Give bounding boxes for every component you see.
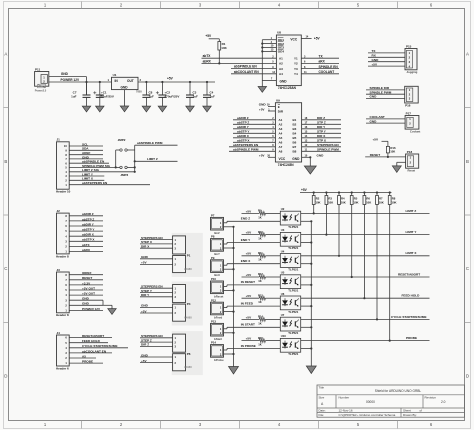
resistor R11 1K (259, 254, 265, 258)
wire JMP2 left leg (115, 150, 117, 167)
margin row ticks right (465, 107, 471, 109)
svg-text:+5V: +5V (259, 107, 266, 111)
svg-text:abSTP Y: abSTP Y (237, 130, 250, 134)
svg-text:END Z: END Z (241, 217, 250, 221)
svg-text:+5V: +5V (205, 34, 212, 38)
svg-text:TLP521: TLP521 (288, 225, 298, 229)
wire P9 pin1 to END X (224, 264, 228, 266)
ground (306, 366, 316, 374)
svg-text:+5V: +5V (167, 77, 174, 81)
svg-text:+3.3V: +3.3V (82, 281, 91, 285)
svg-text:GND: GND (141, 304, 149, 308)
svg-text:STEPPERS EN: STEPPERS EN (317, 143, 339, 147)
svg-text:P12: P12 (211, 298, 216, 302)
pin B8 U9 net SPINDLE PWM (302, 150, 341, 152)
svg-text:DIR X: DIR X (317, 134, 326, 138)
svg-text:DIR Z: DIR Z (141, 343, 149, 347)
svg-text:SPINDLE PWM SIG: SPINDLE PWM SIG (82, 164, 111, 168)
svg-text:U1: U1 (113, 73, 117, 77)
wire P14 pin2 to gnd bus (224, 353, 234, 355)
stepper driver socket P6 Z axis A4988 (172, 331, 203, 375)
svg-text:VCC: VCC (290, 37, 297, 41)
svg-text:1K: 1K (258, 321, 261, 325)
svg-text:P14: P14 (211, 341, 216, 345)
header J4 Header 6 (57, 335, 70, 366)
svg-text:Power2.5: Power2.5 (35, 89, 47, 93)
svg-text:+5V: +5V (141, 359, 148, 363)
svg-text:+5V: +5V (246, 294, 253, 298)
svg-text:Y2: Y2 (294, 62, 298, 66)
wire J3 gnd pins to ground (102, 300, 104, 305)
wire OE common to ground (261, 40, 263, 87)
resistor R2 10K (313, 191, 315, 193)
svg-text:TLP521: TLP521 (288, 310, 298, 314)
svg-text:P15: P15 (406, 44, 412, 48)
svg-text:GND: GND (61, 72, 69, 76)
resistor R13 1K (259, 296, 265, 300)
wire R9 to U2 anode (265, 212, 280, 214)
svg-text:limZ: limZ (214, 231, 220, 235)
svg-text:abSTP Z: abSTP Z (237, 121, 249, 125)
svg-text:LIMIT Z: LIMIT Z (147, 157, 158, 161)
svg-text:DIR Y: DIR Y (141, 293, 150, 297)
ground (186, 106, 195, 112)
pin B5 U9 net DIR X (302, 137, 341, 139)
svg-text:J2: J2 (57, 209, 61, 213)
wire U6 collector out net FEED HOLD (301, 297, 430, 299)
wire DIR X to P1 (140, 247, 173, 249)
wire R16 to reset line (387, 153, 389, 157)
resistor R15 1K (259, 339, 265, 343)
svg-text:A4988: A4988 (184, 316, 192, 320)
svg-text:R15: R15 (258, 336, 263, 340)
svg-text:P18: P18 (407, 150, 413, 154)
svg-text:abDIR X: abDIR X (237, 134, 250, 138)
svg-text:P9: P9 (211, 256, 215, 260)
svg-text:1uF: 1uF (71, 94, 77, 98)
svg-text:Reset: Reset (408, 169, 416, 173)
wire STEP Y to P4 (140, 292, 173, 294)
pin OE3 wire (262, 47, 276, 49)
optocoupler U10 TLP521 (280, 338, 300, 352)
svg-text:R9: R9 (258, 209, 262, 213)
wire U7 collector out net CYCLE START/RESUME (301, 318, 430, 320)
svg-text:+5V: +5V (372, 62, 379, 66)
pin B7 U9 net STEPPERS EN (302, 146, 341, 148)
svg-text:1K: 1K (258, 279, 261, 283)
ground (229, 367, 239, 375)
svg-text:IOREF: IOREF (82, 271, 92, 275)
pin A8 U9 net abSPINDLE PWM (229, 150, 275, 152)
svg-text:A2: A2 (279, 62, 283, 66)
svg-text:A5: A5 (279, 136, 283, 140)
resistor R4 10K (338, 191, 340, 193)
wire GND to P16 pin 3 (366, 97, 405, 99)
svg-text:B: B (4, 159, 7, 164)
junction (134, 166, 136, 168)
wire U5 collector out net RESET/ABORT (301, 276, 430, 278)
svg-text:TLP521: TLP521 (288, 331, 298, 335)
svg-text:TLP521: TLP521 (288, 246, 298, 250)
svg-text:10K: 10K (341, 201, 346, 205)
svg-text:A4: A4 (279, 72, 283, 76)
svg-text:+5V: +5V (373, 137, 380, 141)
svg-text:C:\QPROTEL\..\Arduino controll: C:\QPROTEL\..\Arduino controller Schema (339, 413, 396, 417)
wire STEP Z to P6 (140, 341, 173, 343)
wire DIR Y to P4 (140, 296, 173, 298)
svg-text:74HC245N: 74HC245N (278, 163, 294, 167)
svg-text:Title: Title (319, 386, 325, 390)
svg-text:abSTEPPERS EN: abSTEPPERS EN (82, 181, 108, 185)
svg-text:STP Y: STP Y (317, 130, 327, 134)
svg-text:A1: A1 (279, 56, 283, 60)
wire R6 to signal line (363, 205, 365, 299)
wire P10 pin2 to gnd bus (224, 289, 234, 291)
wire GND from P11 (49, 76, 87, 78)
ground (108, 309, 117, 315)
svg-text:GND: GND (372, 58, 380, 62)
svg-text:P11: P11 (35, 67, 41, 71)
wire P7 pin2 to gnd bus (224, 226, 234, 228)
svg-text:10K: 10K (391, 201, 396, 205)
svg-text:DIR Z: DIR Z (317, 116, 325, 120)
svg-text:GND: GND (370, 119, 378, 123)
svg-text:Y3: Y3 (294, 67, 298, 71)
svg-text:P10: P10 (211, 277, 216, 281)
wire P13 pin1 to IN START (224, 328, 228, 330)
svg-text:STP Z: STP Z (317, 121, 326, 125)
wire P8 pin1 to END Y (224, 243, 228, 245)
svg-text:Header 6: Header 6 (56, 366, 69, 370)
svg-text:abRX: abRX (82, 248, 91, 252)
svg-text:POWER 12V: POWER 12V (82, 307, 101, 311)
wire 12V rail (49, 81, 112, 83)
svg-text:A6: A6 (279, 141, 283, 145)
svg-text:FEED HOLD: FEED HOLD (82, 339, 101, 343)
optocoupler U7 TLP521 (280, 317, 300, 331)
header J1 Header 10 (57, 142, 70, 189)
svg-text:10K: 10K (379, 201, 384, 205)
connector P9 limX (211, 260, 224, 273)
wire +5V to P4 (140, 312, 173, 314)
svg-text:D: D (4, 373, 7, 378)
svg-text:Date:: Date: (319, 409, 326, 413)
svg-text:LIMIT Z: LIMIT Z (406, 209, 417, 213)
svg-text:aRX: aRX (319, 60, 326, 64)
svg-text:A7: A7 (279, 145, 283, 149)
svg-text:RESET/ABORT: RESET/ABORT (398, 272, 420, 276)
svg-text:TLP521: TLP521 (288, 267, 298, 271)
wire TX to P15 pin 1 (368, 52, 405, 54)
ground (304, 166, 316, 174)
wire STEP X to P1 (140, 243, 173, 245)
svg-text:10K: 10K (390, 150, 395, 154)
svg-text:abTX: abTX (203, 54, 212, 58)
wire U6 emitter to bus (301, 305, 312, 307)
svg-text:Y1: Y1 (294, 56, 298, 60)
svg-text:POWER 12V: POWER 12V (61, 78, 80, 82)
resistor R14 1K (259, 318, 265, 322)
svg-text:P8: P8 (211, 235, 215, 239)
svg-text:+5V: +5V (246, 337, 253, 341)
junction (218, 62, 220, 64)
margin column ticks top (81, 2, 83, 9)
connector P13 bStart (211, 323, 224, 336)
wire P7 pin1 to END Z (224, 222, 228, 224)
svg-text:P1: P1 (187, 254, 191, 258)
pin A7 U9 net abSTEPPERS EN (229, 146, 275, 148)
wire R13 to U6 anode (265, 297, 280, 299)
svg-text:+5V: +5V (141, 261, 148, 265)
wire P8 pin2 to gnd bus (224, 247, 234, 249)
wire R7 to signal line (376, 205, 378, 320)
pin A2 U9 net abSTP Z (233, 123, 275, 125)
svg-text:A3: A3 (279, 127, 283, 131)
buffer IC U8 74HC125AN (276, 35, 301, 86)
svg-text:470uF/25V: 470uF/25V (165, 94, 180, 98)
svg-text:10K: 10K (328, 201, 333, 205)
header J3 Header 8 (57, 272, 70, 313)
svg-text:Revision: Revision (425, 396, 437, 400)
optocoupler U2 TLP521 (280, 211, 300, 225)
svg-text:DIR: DIR (278, 109, 284, 113)
header J2 Header 8 (57, 213, 70, 254)
wire R5 to signal line (351, 205, 353, 278)
svg-text:VCC: VCC (279, 157, 286, 161)
svg-text:+5V: +5V (314, 37, 321, 41)
optocoupler U6 TLP521 (280, 296, 300, 310)
wire U3 collector out net LIMIT Y (301, 234, 430, 236)
svg-text:Jogging: Jogging (407, 70, 418, 74)
wire SPINDLE PWM to P16 pin 2 (366, 93, 405, 95)
bus transceiver U9 74HC245N (275, 103, 301, 162)
svg-text:abDIR Z: abDIR Z (82, 212, 94, 216)
svg-text:IN START: IN START (241, 323, 255, 327)
pin OE2 wire (262, 43, 276, 45)
wire +5V to R1 (209, 38, 220, 40)
svg-text:U6: U6 (281, 292, 285, 296)
wire P10 pin1 to IN RESET (224, 285, 228, 287)
svg-text:PROBE: PROBE (82, 360, 93, 364)
svg-text:00000: 00000 (366, 400, 375, 404)
resistor R8 10K (389, 191, 391, 193)
svg-text:abSPINDLE PWM: abSPINDLE PWM (137, 141, 163, 145)
svg-text:D: D (466, 373, 469, 378)
svg-text:10K: 10K (366, 201, 371, 205)
pin A5 U9 net abDIR X (233, 137, 275, 139)
connector P12 bFeed (211, 302, 224, 315)
wire R14 to U7 anode (265, 318, 280, 320)
svg-text:COOLANT: COOLANT (319, 70, 335, 74)
svg-text:A4988: A4988 (184, 365, 192, 369)
wire COOLANT to P17 pin 1 (366, 118, 405, 120)
resistor R16 10K (386, 146, 389, 153)
svg-text:Coolant: Coolant (410, 129, 420, 133)
wire DIR Z to P6 (140, 345, 173, 347)
svg-text:bProbe: bProbe (214, 358, 224, 362)
svg-text:RESET: RESET (370, 153, 380, 157)
wire R3 to signal line (325, 205, 327, 235)
svg-text:U4: U4 (281, 249, 285, 253)
ground (158, 106, 167, 112)
svg-text:Shield for ARDUINO UNO GRBL: Shield for ARDUINO UNO GRBL (375, 389, 422, 393)
connector P8 limY (211, 239, 224, 252)
wire U2 collector out net LIMIT Z (301, 212, 430, 214)
svg-text:+5V: +5V (141, 309, 148, 313)
svg-text:Drawn By:: Drawn By: (403, 413, 417, 417)
svg-text:U5: U5 (281, 271, 285, 275)
svg-text:abSTEPPERS EN: abSTEPPERS EN (233, 143, 259, 147)
svg-text:P13: P13 (211, 320, 216, 324)
svg-text:U10: U10 (281, 334, 287, 338)
stepper driver socket P4 Y axis A4988 (172, 282, 203, 326)
wire STEPPERS EN to P4 (140, 287, 173, 289)
svg-text:END X: END X (241, 259, 251, 263)
svg-text:J3: J3 (57, 268, 61, 272)
junction (261, 43, 263, 45)
pin B2 U9 net STP Z (302, 123, 341, 125)
wire P13 pin2 to gnd bus (224, 332, 234, 334)
svg-text:C: C (4, 266, 7, 271)
stepper driver socket P1 X axis A4988 (172, 233, 203, 277)
svg-text:10K: 10K (221, 46, 227, 50)
svg-text:Number: Number (339, 396, 350, 400)
svg-text:P7: P7 (211, 214, 215, 218)
svg-text:abDIR Y: abDIR Y (82, 222, 95, 226)
svg-text:R13: R13 (258, 293, 263, 297)
svg-text:abDIR X: abDIR X (82, 233, 95, 237)
svg-text:U7: U7 (281, 313, 285, 317)
svg-text:10K: 10K (353, 201, 358, 205)
wire U10 collector out net PROBE (301, 340, 430, 342)
svg-text:A2: A2 (279, 123, 283, 127)
wire P12 pin1 to IN FEED (224, 307, 228, 309)
pin B6 U9 net STP X (302, 141, 341, 143)
svg-text:1K: 1K (258, 300, 261, 304)
svg-text:R12: R12 (258, 272, 263, 276)
svg-text:A4: A4 (279, 132, 283, 136)
svg-text:12-Nov-16: 12-Nov-16 (339, 409, 353, 413)
resistor R12 1K (259, 275, 265, 279)
svg-text:GND: GND (82, 297, 90, 301)
wire +5V to R16 (382, 140, 388, 142)
svg-text:PROBE: PROBE (406, 336, 417, 340)
svg-text:RESET/ABORT: RESET/ABORT (82, 334, 104, 338)
svg-text:GND: GND (141, 353, 149, 357)
wire U10 emitter to bus (301, 348, 312, 350)
svg-text:IN RESET: IN RESET (241, 280, 255, 284)
svg-text:TLP521: TLP521 (288, 289, 298, 293)
svg-text:+5V: +5V (246, 315, 253, 319)
wire GND to P1 (140, 258, 173, 260)
wire U5 emitter to bus (301, 284, 312, 286)
svg-text:abSTP Z: abSTP Z (82, 217, 94, 221)
optocoupler U5 TLP521 (280, 275, 300, 289)
wire +5V to P15 pin 4 (368, 65, 405, 67)
svg-text:FEED HOLD: FEED HOLD (402, 294, 421, 298)
svg-text:+5V: +5V (301, 188, 308, 192)
svg-text:B4: B4 (293, 132, 297, 136)
svg-text:abTX: abTX (82, 243, 91, 247)
svg-text:SPINDLE PWM: SPINDLE PWM (317, 148, 339, 152)
wire R2 to signal line (313, 205, 315, 214)
regulator U1 7805 (112, 77, 139, 89)
svg-text:abSTP X: abSTP X (82, 238, 95, 242)
svg-text:B1: B1 (293, 118, 297, 122)
svg-text:U8: U8 (277, 31, 281, 35)
svg-text:File:: File: (319, 413, 325, 417)
svg-text:R11: R11 (258, 251, 263, 255)
wire U4 emitter to bus (301, 263, 312, 265)
svg-text:B6: B6 (293, 141, 297, 145)
optocoupler U3 TLP521 (280, 232, 300, 246)
svg-text:74HC125AN: 74HC125AN (278, 86, 297, 90)
svg-text:10K: 10K (315, 201, 320, 205)
pin OE4 wire (262, 50, 276, 52)
svg-text:SDA: SDA (82, 147, 89, 151)
svg-text:abSPINDLE EN: abSPINDLE EN (234, 65, 258, 69)
wire GND to P6 (140, 356, 173, 358)
optocoupler U4 TLP521 (280, 254, 300, 268)
junction (115, 166, 117, 168)
pin A3 U9 net abDIR Y (233, 128, 275, 130)
svg-text:+5V: +5V (246, 231, 253, 235)
svg-text:B: B (466, 159, 469, 164)
svg-text:A1: A1 (279, 118, 283, 122)
resistor R5 10K (351, 191, 353, 193)
wire R15 to U10 anode (265, 340, 280, 342)
wire R11 to U4 anode (265, 255, 280, 257)
wire R4 to signal line (338, 205, 340, 256)
wire U7 emitter to bus (301, 326, 312, 328)
wire emitter gnd bus (310, 221, 312, 366)
svg-text:limY: limY (214, 252, 220, 256)
ground (96, 106, 105, 112)
ground (142, 106, 151, 112)
svg-text:U9: U9 (276, 98, 280, 102)
connector P17 Coolant (405, 116, 419, 130)
svg-text:B8: B8 (293, 150, 297, 154)
svg-text:OE4: OE4 (278, 50, 284, 54)
svg-text:abCOOLANT EN: abCOOLANT EN (82, 349, 107, 353)
svg-text:abDIR Z: abDIR Z (237, 116, 249, 120)
svg-text:Sheet: Sheet (403, 409, 411, 413)
connector P16 spindle (405, 86, 419, 103)
wire P14 pin1 to IN PROBE (224, 349, 228, 351)
wire U2 emitter to bus (301, 220, 312, 222)
svg-text:GND: GND (141, 255, 149, 259)
pin A1 U9 net abDIR Z (233, 119, 275, 121)
wire GND to P4 (140, 306, 173, 308)
svg-text:2.0: 2.0 (441, 400, 446, 404)
svg-text:OUT: OUT (127, 79, 134, 83)
svg-text:+5V OUT: +5V OUT (82, 286, 95, 290)
svg-text:Size: Size (319, 396, 325, 400)
wire STEPPERS EN to P1 (140, 239, 173, 241)
svg-text:P4: P4 (187, 302, 191, 306)
wire R8 to signal line (389, 205, 391, 341)
wire +5V to P6 (140, 362, 173, 364)
svg-text:Y4: Y4 (294, 72, 298, 76)
svg-text:A8: A8 (279, 150, 283, 154)
wire JMP2 right leg (134, 145, 136, 172)
pin B1 U9 net DIR Z (302, 119, 341, 121)
wire U1 ground pin (124, 90, 126, 106)
junction (309, 156, 311, 158)
svg-text:GND: GND (259, 103, 267, 107)
wire STEPPERS EN to P6 (140, 337, 173, 339)
svg-text:of: of (420, 409, 423, 413)
